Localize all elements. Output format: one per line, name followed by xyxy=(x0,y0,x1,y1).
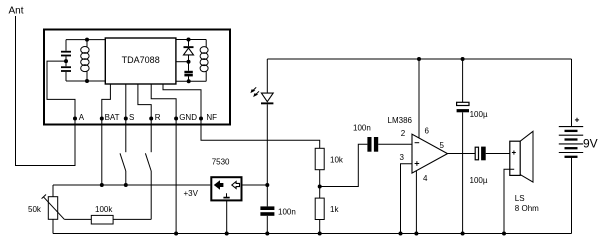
wire R4 to ground rail xyxy=(319,220,321,234)
node pin6 on top rail xyxy=(417,57,421,61)
svg-text:5: 5 xyxy=(440,141,445,150)
node pin NF xyxy=(199,113,217,122)
svg-text:LM386: LM386 xyxy=(388,116,413,125)
wire C4 to U3 pin2 xyxy=(378,143,412,145)
svg-text:100n: 100n xyxy=(353,123,371,132)
inductor L2 xyxy=(200,40,208,82)
node D1-C2 junction xyxy=(187,60,191,64)
wire U1 pin4 to GND xyxy=(151,84,176,119)
wire +9V top rail xyxy=(267,58,571,60)
node GND on ground rail xyxy=(174,232,178,236)
node L1 top xyxy=(85,38,89,42)
svg-text:9V: 9V xyxy=(583,137,598,151)
svg-text:R: R xyxy=(155,113,161,122)
IC U1 TDA7088 xyxy=(105,38,176,84)
pin 4 label xyxy=(423,174,428,183)
node D1 top xyxy=(187,38,191,42)
svg-text:2: 2 xyxy=(401,129,406,138)
capacitor C4 100n xyxy=(353,123,378,151)
wire R2 to switch S2 xyxy=(113,218,151,220)
node L1 bottom xyxy=(85,79,89,83)
wire U3 pin3 to ground xyxy=(401,164,413,234)
capacitor C5 100u decoupling xyxy=(457,59,488,234)
wire U1 pin3 to R xyxy=(138,84,151,119)
wire U1 pin5 to NF xyxy=(163,84,201,119)
capacitor C3 100n xyxy=(260,185,295,234)
wire speaker return to ground xyxy=(504,169,514,233)
wire ground rail xyxy=(53,233,572,235)
svg-text:NF: NF xyxy=(206,113,217,122)
pin 2 label xyxy=(401,129,406,138)
svg-text:100µ: 100µ xyxy=(470,176,488,185)
node pin BAT xyxy=(100,113,120,122)
net label +3V xyxy=(184,189,199,198)
capacitor C6 100u coupling xyxy=(470,147,510,185)
svg-text:10k: 10k xyxy=(330,156,344,165)
wire NF to R3 xyxy=(201,119,320,148)
wire BAT to +3V rail xyxy=(101,119,103,185)
resistor R4 1k xyxy=(315,198,339,219)
wire wiper to R2 xyxy=(64,218,91,220)
svg-text:100µ: 100µ xyxy=(470,110,488,119)
wire U2 ground pin xyxy=(226,201,228,234)
node S on rail xyxy=(124,183,128,187)
node pin S xyxy=(124,113,135,122)
regulator U2 7530 xyxy=(211,158,241,201)
wire right tank mid to U1 xyxy=(176,61,189,63)
node BAT on rail xyxy=(100,183,104,187)
svg-text:GND: GND xyxy=(179,113,197,122)
node C1 midpoint xyxy=(64,59,68,63)
diode D1 varicap xyxy=(184,40,194,62)
switch S1 (scan) xyxy=(120,119,126,185)
wire R3 to R4 xyxy=(319,170,321,198)
node Ant label xyxy=(9,6,24,17)
node R4 on ground rail xyxy=(318,232,322,236)
pin 6 label xyxy=(425,127,430,136)
resistor R2 100k xyxy=(91,205,113,224)
svg-text:BAT: BAT xyxy=(105,113,120,122)
svg-text:7530: 7530 xyxy=(212,158,230,167)
node C3 on ground rail xyxy=(265,232,269,236)
svg-text:A: A xyxy=(79,113,85,122)
svg-text:S: S xyxy=(129,113,134,122)
node pin R xyxy=(149,113,161,122)
wire left tank top xyxy=(66,39,105,41)
resistor R3 10k xyxy=(315,148,344,169)
battery BT1 9V xyxy=(559,59,598,234)
wire right tank bottom xyxy=(176,80,206,82)
inductor L1 xyxy=(81,40,89,81)
switch S2 (reset) xyxy=(145,119,151,219)
capacitor C1b xyxy=(61,61,71,81)
node LED cathode / 3V input xyxy=(265,183,269,187)
speaker LS 8 Ohm xyxy=(510,131,539,213)
LED D2 xyxy=(261,59,273,185)
node pin4 on ground rail xyxy=(414,232,418,236)
wire right tank top xyxy=(176,39,206,41)
svg-text:+3V: +3V xyxy=(184,189,199,198)
LED arrows xyxy=(250,87,259,97)
capacitor C2 xyxy=(184,62,192,82)
wire U3 pin4 to ground xyxy=(415,171,417,234)
svg-text:1k: 1k xyxy=(330,205,339,214)
capacitor C1a xyxy=(61,40,71,62)
svg-text:3: 3 xyxy=(400,153,405,162)
svg-text:8 Ohm: 8 Ohm xyxy=(515,204,539,213)
wire GND to ground rail xyxy=(175,119,177,234)
node C2 bottom xyxy=(187,79,191,83)
node C5 on top rail xyxy=(461,57,465,61)
svg-text:4: 4 xyxy=(423,174,428,183)
node pin A xyxy=(73,113,85,122)
node pin GND xyxy=(174,113,197,122)
pin 5 label xyxy=(440,141,445,150)
node C5 on ground rail xyxy=(461,232,465,236)
node U2 ground on rail xyxy=(225,232,229,236)
svg-text:100k: 100k xyxy=(95,205,113,214)
node divider xyxy=(318,185,322,189)
potentiometer R1 50k xyxy=(28,185,64,234)
wire +3V rail xyxy=(53,184,210,186)
svg-text:LS: LS xyxy=(515,194,525,203)
module box (receiver module) xyxy=(44,30,230,125)
svg-text:TDA7088: TDA7088 xyxy=(122,55,160,65)
wire U1 pin2 to S xyxy=(125,84,127,119)
svg-text:50k: 50k xyxy=(28,205,42,214)
pin 3 label xyxy=(400,153,405,162)
node speaker on ground rail xyxy=(502,232,506,236)
svg-text:6: 6 xyxy=(425,127,430,136)
wire C1 midpoint to pin A xyxy=(47,61,75,119)
wire U3 output xyxy=(448,153,476,155)
op-amp U3 LM386 xyxy=(388,116,448,173)
wire U2 output to LED node xyxy=(242,184,268,186)
svg-text:100n: 100n xyxy=(278,208,296,217)
svg-text:Ant: Ant xyxy=(9,6,24,17)
wire U3 pin6 to +9V xyxy=(418,59,420,138)
wire antenna to pin A xyxy=(16,16,76,166)
wire left tank bottom xyxy=(66,80,105,82)
node pin3 on ground rail xyxy=(399,232,403,236)
wire U1 pin1 to BAT xyxy=(102,84,111,119)
wire divider to C4 xyxy=(320,144,368,186)
